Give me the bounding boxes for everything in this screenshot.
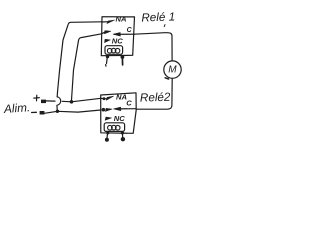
coil pin right end dot relay2 <box>121 137 125 141</box>
stub NA relay2 <box>101 97 107 99</box>
svg-text:NC: NC <box>114 114 125 123</box>
svg-text:M: M <box>168 65 177 76</box>
plus rail wire continue to relay2 <box>62 98 101 102</box>
common arm relay1 <box>115 33 135 35</box>
svg-text:NA: NA <box>116 14 127 23</box>
motor M circle <box>164 61 181 78</box>
svg-text:Relé2: Relé2 <box>140 91 171 105</box>
junction dot on minus rail <box>56 110 59 113</box>
wire line B: C stub relay1 to plus rail <box>72 34 102 100</box>
wire NA stub relay1 <box>102 21 109 23</box>
svg-text:Alim.: Alim. <box>3 100 31 116</box>
arm arrowhead relay1 <box>113 33 120 37</box>
contact NA arrowhead relay2 <box>106 96 113 100</box>
coil loops relay2 <box>108 125 113 130</box>
coil terminal dot right relay1 <box>121 55 125 59</box>
plus rail wire <box>46 100 55 102</box>
coil terminal dot right relay2 <box>121 131 124 134</box>
motor bottom tick <box>165 78 168 79</box>
svg-text:C: C <box>127 27 133 34</box>
coil pin left relay1 <box>106 57 108 66</box>
wire C relay1 to motor <box>134 33 172 61</box>
arm arrowhead relay2 <box>113 107 120 111</box>
wire line A: NA relay1 to minus rail with hop <box>57 22 102 97</box>
arrowhead right on stub relay1 <box>105 31 112 34</box>
coil box relay2 <box>104 123 124 132</box>
plus sign <box>34 95 40 101</box>
wire stub C-side relay1 <box>102 32 105 34</box>
upper entry dot relay2 <box>103 97 106 100</box>
common arm relay2 <box>116 108 137 110</box>
svg-text:C: C <box>126 99 132 108</box>
coil terminal dot left relay1 <box>106 55 109 58</box>
left entry dot relay2 <box>102 108 106 112</box>
coil pin right relay2 <box>121 133 123 138</box>
svg-text:Relé 1: Relé 1 <box>141 10 175 24</box>
relay K2 box <box>101 93 137 134</box>
junction dot on plus rail <box>70 100 74 104</box>
contact NC arrowhead relay1 <box>105 39 111 42</box>
stub arrow right relay2 <box>106 108 113 111</box>
svg-text:NC: NC <box>112 37 123 46</box>
coil loops relay1 <box>107 48 112 53</box>
contact NA arrowhead relay1 <box>107 20 115 24</box>
relay K1 box <box>101 17 134 56</box>
plus terminal square <box>41 100 46 104</box>
coil box relay1 <box>105 46 123 55</box>
minus terminal square <box>40 111 45 115</box>
wire hop over plus rail <box>57 97 61 111</box>
coil pin left relay2 <box>106 133 109 139</box>
minus rail wire <box>44 110 100 113</box>
contact NC arrowhead relay2 <box>105 117 111 120</box>
wire motor to relay2 arm <box>136 78 172 109</box>
tick under label <box>163 25 166 27</box>
coil pin right relay1 <box>121 57 123 65</box>
minus sign <box>32 111 37 113</box>
coil terminal dot left relay2 <box>106 132 109 135</box>
coil pin left end dot relay2 <box>105 138 109 142</box>
